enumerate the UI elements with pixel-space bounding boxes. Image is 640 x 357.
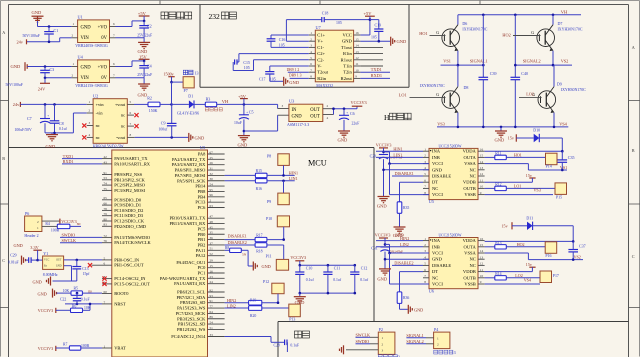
svg-text:GND: GND [14,243,23,248]
port +5V [138,11,150,21]
svg-text:MAX3232: MAX3232 [316,84,333,88]
svg-text:PH1-OSC_OUT: PH1-OSC_OUT [114,263,144,268]
capacitor C29 [8,254,38,265]
net label SIGNAL2 at P4 [406,339,426,344]
oscillator Y1 [38,251,64,277]
svg-text:VS3: VS3 [437,121,445,126]
transistor D6 IXYH30N170C [430,15,488,51]
transistor D7 IXYH30N170C [513,15,583,51]
node junction C20 top [382,151,385,154]
svg-text:79: 79 [104,212,108,216]
node junction D9 emitter [553,126,556,129]
svg-text:D8: D8 [464,85,469,90]
wire U5 VDDB [485,181,533,183]
ground below bottom rail [495,127,508,142]
svg-text:B: B [632,148,635,153]
capacitor C3 [6,67,55,88]
svg-text:PA14/TCK/SWCLK: PA14/TCK/SWCLK [114,240,151,245]
svg-text:HIN2: HIN2 [400,236,409,241]
svg-text:SWDIO: SWDIO [356,339,370,344]
resistor R35 [397,202,409,214]
node junction C22 bottom [76,303,79,306]
svg-text:100uF/50V: 100uF/50V [15,128,33,132]
svg-text:INA: INA [432,149,441,154]
svg-text:SWDIO: SWDIO [62,233,76,238]
wire Y1 out to PH0 [64,259,102,261]
svg-text:VS2: VS2 [574,255,581,260]
svg-text:15V: 15V [139,54,148,59]
svg-text:89: 89 [210,315,214,319]
wire D11 to U6 VDDA [572,226,574,242]
port 15V [139,54,150,61]
ground below C2 [138,38,151,54]
wire VH top rail [458,14,581,16]
svg-text:51: 51 [210,326,214,330]
node junction C9 bottom [170,136,173,139]
svg-text:nc: nc [121,124,125,129]
svg-text:29: 29 [210,259,214,263]
svg-text:0.1uF: 0.1uF [81,298,90,302]
svg-text:95: 95 [210,188,214,192]
node junction gnd stem U6 [384,258,387,261]
connector P17 [540,271,559,283]
port GND left of U4 [11,62,28,71]
svg-text:R1out: R1out [341,57,353,62]
resistor R36 [397,292,409,304]
svg-text:nc: nc [96,123,100,128]
port 24v left of U2 [13,102,21,107]
svg-text:C: C [632,254,635,259]
svg-text:OUTA: OUTA [464,155,477,160]
svg-text:VCC3V3: VCC3V3 [38,308,53,313]
svg-text:nc: nc [96,135,100,140]
connector P6 Header2 [24,211,60,238]
svg-text:R16: R16 [256,187,262,191]
resistor R11 [485,151,507,159]
resistor R2 [147,96,160,113]
no-connect X PH1 [88,263,102,267]
node junction C37 top [572,240,575,243]
svg-text:C2: C2 [147,23,152,28]
svg-text:VSSB: VSSB [464,192,475,197]
label power port (blue) [434,350,456,355]
wire SIGNAL2 row [515,64,572,66]
net label SWDIO to mcu [60,233,102,238]
net label DISABLE1 mcu side [225,233,256,239]
svg-text:VS3: VS3 [534,188,541,193]
svg-text:R4: R4 [45,222,50,226]
svg-text:PB3/I2S3_SCK: PB3/I2S3_SCK [177,316,206,321]
svg-text:65: 65 [104,196,108,200]
svg-text:15: 15 [480,154,484,158]
svg-text:R35: R35 [403,206,409,210]
svg-text:3.3V: 3.3V [30,245,39,250]
svg-text:PB5/I2S3_SD: PB5/I2S3_SD [180,300,206,305]
svg-text:HIN1: HIN1 [393,146,402,151]
svg-text:C13: C13 [82,267,88,271]
svg-text:P8: P8 [267,153,271,158]
net label RXD1 on pin9 [360,73,390,78]
port 15v for D11 [502,222,513,229]
svg-text:RXD1: RXD1 [371,73,382,78]
svg-text:PC7/I2S3_MCK: PC7/I2S3_MCK [176,311,206,316]
wire U7 pin14 T1out stub [360,46,383,48]
wire cap rail bottom [300,292,355,294]
svg-text:SIGNAL1: SIGNAL1 [406,333,423,338]
svg-text:C35: C35 [568,155,575,160]
capacitor C37 [568,241,585,259]
wire P12 to HIN2 [277,294,279,303]
mcu right pin rows [160,150,225,339]
svg-text:R5: R5 [74,286,79,290]
diode D10 [516,127,562,142]
svg-text:R2: R2 [147,96,152,101]
node junction C35 bottom [561,169,564,172]
svg-text:SIGNAL1: SIGNAL1 [470,59,488,64]
svg-text:P15: P15 [556,195,562,199]
svg-text:16: 16 [210,269,214,273]
ground for R5 boot0 [38,289,57,298]
diode D11 [512,215,573,230]
svg-text:10: 10 [480,185,484,189]
svg-text:PD2/SDIO_CMD: PD2/SDIO_CMD [114,224,147,229]
svg-text:R20: R20 [250,314,256,318]
svg-text:R8: R8 [225,246,229,250]
svg-text:PC14-OSC32_IN: PC14-OSC32_IN [114,276,146,281]
port 3.3V [30,245,42,260]
wire DT pin6 to R35 [400,182,424,202]
svg-text:VCC3V3: VCC3V3 [61,219,76,224]
svg-text:VS4: VS4 [559,121,567,126]
svg-text:P7: P7 [184,88,188,93]
svg-text:R15: R15 [256,169,262,173]
no-connect X U2 pin4 [82,135,86,139]
wire VCCI pin8 loop u6 [390,253,430,284]
net label HIN2 mcu side [225,298,249,303]
svg-text:GND: GND [262,264,271,269]
svg-text:R13: R13 [495,241,501,245]
svg-text:C1-: C1- [317,45,324,50]
svg-text:VCC3V3: VCC3V3 [351,100,367,105]
svg-text:D11: D11 [526,215,533,220]
svg-text:GND: GND [377,204,388,209]
svg-text:16: 16 [355,31,359,35]
svg-text:42: 42 [104,155,108,159]
svg-text:MCU: MCU [308,159,327,168]
svg-text:13: 13 [195,71,199,76]
svg-text:NC: NC [432,275,438,280]
ground below C20 [377,197,390,209]
port 15v for D10 [508,134,517,141]
svg-text:VCC: VCC [44,259,50,262]
svg-text:T1in: T1in [343,64,352,69]
svg-text:LO2: LO2 [526,91,534,96]
wire U5 VSSA to VS1 [485,164,567,170]
ground right of pin8 [189,133,205,142]
capacitor C17 on pin6 [259,66,309,81]
svg-text:PB9/SPI2_NSS: PB9/SPI2_NSS [114,172,142,177]
svg-text:15: 15 [480,243,484,247]
node junction C19 bottom [378,40,381,43]
svg-text:D9: D9 [557,82,562,87]
node junction U3 outputs [332,107,335,110]
label debug-13 (tiao-shi 13) [183,70,198,75]
net label SWCLK at P2 [356,333,371,338]
wire R3 to U3 input [217,103,278,105]
svg-text:C37: C37 [579,243,586,248]
svg-text:PB1: PB1 [198,237,206,242]
connector P4 [426,327,450,349]
svg-text:C11: C11 [334,267,340,271]
wire D6 emitter to VS1 [457,51,459,65]
svg-text:DT: DT [432,180,438,185]
wire U5 VSSB VS3 [485,188,553,195]
svg-text:C6: C6 [350,111,355,116]
no-connect X U2 pin3 [82,123,86,127]
svg-text:25V/22uF: 25V/22uF [137,33,152,37]
svg-text:GL41Y-E3/96: GL41Y-E3/96 [177,112,199,116]
svg-text:0.1uF: 0.1uF [290,343,299,347]
svg-text:GND: GND [414,307,423,312]
svg-text:A: A [2,30,5,35]
svg-text:PB14: PB14 [195,184,206,189]
svg-text:PC13: PC13 [195,200,206,205]
svg-text:PA10/USART1_RX: PA10/USART1_RX [114,161,151,166]
net label DISABLE1 wire [392,171,423,176]
node junction C10 top [299,264,302,267]
svg-text:C: C [2,258,5,263]
ground for Y1 [33,266,77,286]
node junction HIN2 P12 [277,301,280,304]
svg-text:GND: GND [138,49,149,54]
node junction C11 top [327,264,330,267]
svg-text:C40: C40 [521,71,528,76]
wire D8 emitter to bottom rail [457,113,459,127]
svg-text:RXD1: RXD1 [63,159,74,164]
svg-text:PA5/SPI1_SCK: PA5/SPI1_SCK [177,178,206,183]
svg-text:16: 16 [480,147,484,151]
net label DB9-1-3 on pin8 [289,74,309,79]
svg-text:C29: C29 [10,254,16,258]
svg-text:VCC3V3: VCC3V3 [290,255,306,260]
svg-text:12: 12 [480,262,484,266]
svg-text:PA13/TMS/SWDIO: PA13/TMS/SWDIO [114,235,151,240]
svg-text:PA1/UART4_RX: PA1/UART4_RX [174,281,206,286]
svg-text:36: 36 [210,236,214,240]
net label TXD1 on pin10 [360,67,390,72]
resistor R14 [485,272,507,280]
svg-text:T1out: T1out [341,45,353,50]
svg-text:VS2: VS2 [561,59,569,64]
svg-text:SWCLK: SWCLK [356,333,371,338]
svg-text:VSSA: VSSA [464,161,476,166]
wire VCCI pin3 tap [384,152,430,164]
capacitor C35 [558,151,575,170]
svg-text:OUT: OUT [310,115,320,120]
node junction C22 top [76,292,79,295]
label current-limit-resistor [205,108,208,111]
node junction C37 bottom [572,258,575,261]
svg-text:LIN1: LIN1 [289,176,298,181]
svg-text:0V: 0V [101,76,107,81]
wire GND pin4 u6 [385,258,429,260]
svg-text:V+: V+ [317,39,323,44]
svg-text:10: 10 [480,274,484,278]
port 15v to U5 VDDB [526,173,536,182]
wire U5 VDDA to D10 rail [485,150,563,152]
svg-text:HIN1: HIN1 [289,171,298,176]
wire VCCI pin8 loop [390,164,430,195]
svg-text:T2out: T2out [317,70,329,75]
wire VS1 SIGNAL1 row [441,64,484,66]
connector P7 [183,77,194,94]
capacitor C16 loop pin1-pin3 [267,35,309,47]
ground left of P11 [253,262,270,271]
node junction gnd stem U5 [382,169,385,172]
svg-text:NC: NC [469,167,475,172]
svg-text:nc: nc [121,113,125,118]
svg-text:24v: 24v [17,40,24,45]
net label SIGNAL1 at P4 [406,333,426,338]
svg-text:53: 53 [104,176,108,180]
node junction D7 emitter [552,64,555,67]
svg-text:INB: INB [432,244,440,249]
title interface (jie-kou) [295,331,302,338]
svg-text:OUTA: OUTA [464,244,477,249]
svg-text:R3: R3 [206,96,211,101]
wire U1 pin6 to +5V [116,21,145,27]
transistor D8 IXYH30N170C [410,65,469,113]
connector P11 [266,255,289,271]
node junction C6 top [343,107,346,110]
svg-text:P17: P17 [553,274,559,278]
svg-text:0V: 0V [101,36,107,41]
svg-text:GND: GND [56,264,62,267]
net label LIN1 wire [376,153,423,158]
svg-text:GND: GND [377,276,388,281]
svg-text:C9: C9 [161,121,166,126]
node junction C8 top [53,103,56,106]
svg-text:105: 105 [371,36,377,40]
svg-text:50V/100uF: 50V/100uF [6,83,23,87]
svg-text:P11: P11 [266,255,272,259]
resistor R16 [225,179,267,192]
net label DB9-1-2 on pin7 [287,68,309,72]
svg-text:U7: U7 [316,25,321,30]
capacitor C20 electrolytic [370,150,389,196]
svg-text:43: 43 [104,160,108,164]
ground below C5 [238,136,250,148]
svg-text:C4: C4 [147,63,152,68]
svg-text:105: 105 [244,66,250,70]
ground for C29 [14,243,26,265]
svg-text:R19: R19 [250,298,256,302]
wire junction to P7 [172,82,184,104]
svg-text:PA7/SPI1_MOSI: PA7/SPI1_MOSI [175,173,206,178]
svg-text:PB12/I2S2_WS: PB12/I2S2_WS [177,327,206,332]
svg-text:BOOT0: BOOT0 [114,291,129,296]
port VCC3V3 at U3 output [351,100,367,109]
svg-text:100R: 100R [51,229,60,233]
svg-text:GND: GND [33,280,42,285]
svg-text:HRB2415S/D2-5W: HRB2415S/D2-5W [93,145,124,149]
resistor R20 [249,306,289,318]
ground cap rail [294,293,306,305]
svg-text:C28: C28 [274,343,280,347]
node junction C12 top [354,264,357,267]
port VCC3V3 driver2 [375,233,391,246]
net label RXD1 to mcu [62,159,102,164]
resistor R3 [205,96,216,106]
wire U7 pin11 T1in stub [360,65,383,67]
net label DISABLE2 wire [392,261,423,266]
svg-text:10uF: 10uF [234,121,242,125]
node junction D6 emitter [457,64,460,67]
svg-text:C1: C1 [54,28,59,33]
svg-text:R1in: R1in [343,51,353,56]
connector P2 [346,327,395,354]
ground right of C17 [284,77,300,86]
svg-text:U5: U5 [429,199,434,204]
wire GND pin4 [384,169,430,171]
net label HIN1 wire [376,146,423,151]
svg-text:R12: R12 [495,182,501,186]
capacitor C10 [295,265,314,293]
svg-text:PC8/SDIO_D0: PC8/SDIO_D0 [114,197,142,202]
svg-text:P9: P9 [267,199,271,204]
svg-text:Header 2: Header 2 [24,234,38,238]
svg-text:+: + [346,111,348,115]
svg-text:60: 60 [104,290,108,294]
svg-text:PB13/SPI2_SCK: PB13/SPI2_SCK [114,177,145,182]
wire U6 VDDA rail [485,240,574,242]
svg-text:PC6: PC6 [198,205,206,210]
net label HO1 wire to P14 [506,153,545,158]
svg-text:VS1: VS1 [560,165,567,170]
wire U4 pin6 to 15V [116,61,145,67]
connector P13 [289,304,301,322]
svg-text:26: 26 [210,161,214,165]
no-connect X PC14 [102,277,106,281]
svg-text:GND: GND [432,167,443,172]
svg-text:G: G [436,31,439,35]
wire U4 pin2 VIN [45,77,72,79]
svg-text:30: 30 [210,177,214,181]
wire 24v to U1 pin2 [27,38,72,42]
node junction GND rail C7 [53,132,56,135]
svg-text:VH: VH [561,9,568,14]
svg-text:R18: R18 [256,249,262,253]
resistor R5 10K [57,286,103,295]
svg-text:NC: NC [469,257,475,262]
svg-text:C18: C18 [322,12,329,16]
svg-text:IXYH30N170C: IXYH30N170C [558,28,583,32]
svg-text:IN: IN [292,108,298,113]
svg-text:VCCI: VCCI [432,192,443,197]
svg-text:U1: U1 [78,15,83,20]
svg-text:H: H [384,113,390,122]
wire U3 pin2 output [323,104,357,109]
svg-text:OUTB: OUTB [463,186,475,191]
svg-text:R7: R7 [63,342,68,346]
no-connect X PC15 [102,282,106,286]
svg-text:11: 11 [480,268,484,272]
connector P12 [263,280,284,294]
capacitor C12 [350,265,369,293]
svg-text:HO1: HO1 [514,153,522,158]
node junction +5V C5 [243,103,246,106]
svg-text:15v: 15v [502,224,509,229]
